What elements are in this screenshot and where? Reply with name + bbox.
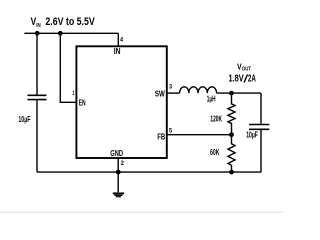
node R2 bottom junction [229, 170, 234, 175]
wire VIN rail [24, 32, 118, 34]
node FB junction [229, 132, 234, 137]
wire output right branch down [260, 93, 262, 124]
node GND junction [116, 170, 121, 175]
capacitor C2 10uF [249, 125, 269, 130]
wire C2 bottom to rail [260, 130, 262, 172]
svg-text:1µH: 1µH [207, 95, 216, 104]
label VOUT [229, 61, 256, 84]
svg-text:2A: 2A [248, 74, 256, 85]
wire GND to ground symbol [117, 172, 119, 192]
svg-text:10µF: 10µF [18, 115, 30, 124]
svg-text:10µF: 10µF [246, 131, 258, 140]
svg-text:2.6V to 5.5V: 2.6V to 5.5V [45, 16, 95, 28]
svg-text:1: 1 [72, 90, 74, 97]
svg-text:FB: FB [157, 131, 165, 141]
label VIN [31, 16, 96, 29]
op-amp U1 regulator box [76, 46, 166, 158]
svg-text:EN: EN [79, 97, 86, 107]
wire C1 bottom to ground rail [36, 100, 38, 172]
svg-text:OUT: OUT [242, 66, 251, 72]
svg-text:4: 4 [120, 37, 123, 44]
wire EN branch [60, 33, 76, 102]
svg-text:5: 5 [169, 128, 172, 135]
svg-text:IN: IN [114, 46, 121, 56]
resistor R2 60K [228, 135, 235, 172]
faint divider line [0, 211, 283, 213]
svg-text:SW: SW [155, 88, 166, 98]
inductor L1 [180, 87, 217, 93]
wire IN pin drop [117, 33, 119, 46]
svg-text:IN: IN [36, 23, 40, 29]
capacitor C1 10uF [28, 95, 47, 99]
svg-text:GND: GND [110, 148, 123, 158]
wire L1 to output corner [217, 92, 261, 94]
wire FB stub [167, 134, 232, 136]
wire left branch down to C1 [36, 33, 38, 94]
node VOUT junction [229, 91, 234, 96]
svg-text:2: 2 [121, 160, 124, 167]
svg-text:3: 3 [169, 83, 172, 90]
node VIN junction 1 [35, 31, 40, 36]
wire GND pin drop [117, 158, 119, 172]
wire bottom ground rail [37, 171, 261, 173]
svg-text:120K: 120K [210, 115, 222, 124]
wire SW stub [167, 92, 180, 94]
svg-text:60K: 60K [210, 148, 220, 157]
resistor R1 120K [228, 93, 235, 135]
node VIN junction 2 [58, 31, 63, 36]
svg-text:1.8V: 1.8V [229, 74, 245, 85]
ground [113, 193, 124, 196]
